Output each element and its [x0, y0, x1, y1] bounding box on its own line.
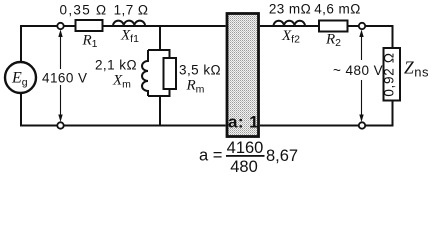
inductor Xf2: [274, 21, 306, 26]
voltage arrow 480 V: [361, 34, 363, 119]
wire bottom-right bus: [260, 100, 393, 126]
svg-text:0,92 Ω: 0,92 Ω: [382, 52, 397, 96]
svg-text:4160: 4160: [227, 139, 264, 157]
svg-text:8,67: 8,67: [266, 147, 298, 165]
svg-text:3,5 kΩ: 3,5 kΩ: [179, 63, 221, 78]
node bottom-left: [57, 122, 63, 128]
svg-text:2,1 kΩ: 2,1 kΩ: [95, 58, 137, 73]
svg-text:4,6 mΩ: 4,6 mΩ: [314, 2, 361, 17]
voltage arrow 4160 V: [60, 34, 62, 119]
load impedance Zns: [384, 48, 401, 101]
node top-right: [359, 23, 365, 29]
resistor R1: [76, 20, 103, 31]
svg-text:1,7 Ω: 1,7 Ω: [114, 3, 149, 18]
svg-text:a: 1: a: 1: [228, 113, 259, 132]
ideal transformer block a:1: [227, 14, 259, 137]
inductor Xm: [142, 50, 148, 96]
node top-left: [57, 23, 63, 29]
wire top-right bus: [260, 26, 393, 48]
fraction bar: [226, 155, 265, 157]
inductor Xf1: [113, 21, 145, 26]
wire shunt feed top: [159, 26, 161, 50]
wire Rm branch: [169, 49, 171, 97]
node bottom-right: [359, 122, 365, 128]
svg-text:480: 480: [230, 158, 258, 176]
svg-text:0,35 Ω: 0,35 Ω: [60, 3, 108, 18]
formula a = 4160/480 = 8,67: [199, 139, 298, 176]
resistor Rm: [164, 58, 177, 89]
svg-text:23 mΩ: 23 mΩ: [269, 2, 311, 17]
wire shunt feed bottom: [159, 96, 161, 126]
wire top-left bus: [21, 26, 226, 62]
voltage source Eg: [5, 62, 36, 93]
svg-text:a =: a =: [199, 147, 222, 165]
svg-text:~ 480 V: ~ 480 V: [333, 63, 383, 78]
wire shunt bottom bar: [148, 95, 170, 97]
wire bottom-left bus: [21, 93, 226, 126]
wire shunt top bar: [148, 49, 170, 51]
svg-text:4160 V: 4160 V: [42, 71, 88, 86]
resistor R2: [319, 21, 348, 32]
